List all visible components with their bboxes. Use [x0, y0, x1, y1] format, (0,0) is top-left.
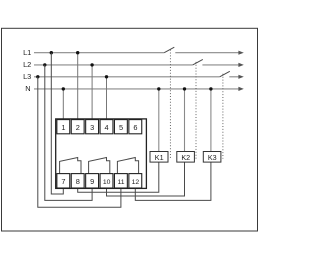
junction on L3 at riser to bottom run	[36, 75, 39, 78]
mechanical link K1 (dotted)	[169, 50, 171, 159]
junction on L1 at terminal 2 riser	[76, 51, 79, 54]
terminal 5	[114, 120, 127, 134]
relay contact 2 (terminals 9-10)	[89, 158, 110, 174]
wire L2 bus	[34, 64, 239, 66]
wire L1 to terminal 2	[77, 53, 79, 120]
junction on N at terminal 1 riser	[62, 87, 65, 90]
junction on N at K1 feed	[157, 87, 160, 90]
arrow L3	[238, 75, 243, 79]
svg-text:2: 2	[76, 123, 80, 132]
svg-text:N: N	[25, 84, 30, 93]
wire L3 to terminal 11 (bottom run)	[38, 77, 121, 207]
wire terminal 10 to K2 coil (bottom run)	[107, 162, 185, 196]
wire L3 to terminal 4	[106, 77, 108, 120]
contactor coil K2	[177, 152, 195, 163]
svg-text:6: 6	[133, 123, 137, 132]
terminal 4	[100, 120, 113, 134]
relay contact 1 (terminals 7-8)	[60, 158, 81, 174]
wire terminal 12 to K3 coil (bottom run)	[135, 162, 211, 200]
switch contact K2 on L2	[193, 59, 203, 65]
junction on L3 at terminal 4 riser	[105, 75, 108, 78]
arrow N	[238, 87, 243, 91]
terminal 6	[129, 120, 142, 134]
terminal 8	[71, 174, 84, 188]
terminal 2	[71, 120, 84, 134]
junction on N at K3 feed	[209, 87, 212, 90]
svg-text:K1: K1	[155, 153, 164, 162]
svg-text:8: 8	[76, 177, 80, 186]
terminal 3	[86, 120, 99, 134]
svg-text:3: 3	[90, 123, 94, 132]
svg-text:7: 7	[61, 177, 65, 186]
relay device box	[56, 119, 147, 188]
svg-text:5: 5	[119, 123, 123, 132]
switch contact K3 on L3	[220, 71, 230, 77]
contactor coil K3	[203, 152, 221, 163]
terminal 9	[86, 174, 99, 188]
wire L2 to terminal 3	[91, 65, 93, 120]
wire terminal 8 to K1 coil (bottom run)	[78, 162, 159, 192]
terminal 10	[100, 174, 113, 188]
svg-text:9: 9	[90, 177, 94, 186]
wire L1 to terminal 7 (bottom run)	[51, 53, 63, 194]
junction on L1 at riser to bottom run	[50, 51, 53, 54]
wire L1 bus	[34, 52, 239, 54]
arrow L1	[238, 51, 243, 55]
svg-text:L2: L2	[23, 60, 31, 69]
relay contact 3 (terminals 11-12)	[117, 158, 138, 174]
svg-text:10: 10	[103, 179, 111, 186]
arrow L2	[238, 63, 243, 67]
switch contact K1 on L1	[164, 47, 174, 53]
svg-text:4: 4	[105, 123, 109, 132]
svg-text:11: 11	[117, 179, 124, 186]
mechanical link K2 (dotted)	[195, 62, 197, 159]
contactor coil K1	[150, 152, 168, 163]
terminal 7	[57, 174, 70, 188]
svg-text:K2: K2	[181, 153, 190, 162]
wire N to K2 coil	[184, 89, 186, 152]
junction on L2 at terminal 3 riser	[90, 63, 93, 66]
svg-text:1: 1	[61, 123, 65, 132]
wire L2 to terminal 9 (bottom run)	[45, 65, 92, 201]
mechanical link K3 (dotted)	[222, 74, 224, 159]
wire N to K1 coil	[158, 89, 160, 152]
svg-text:K3: K3	[208, 153, 217, 162]
svg-text:L1: L1	[23, 48, 31, 57]
junction on L2 at riser to bottom run	[43, 63, 46, 66]
junction on N at K2 feed	[183, 87, 186, 90]
terminal 1	[57, 120, 70, 134]
wire N to K3 coil	[210, 89, 212, 152]
wire L3 bus	[34, 76, 239, 78]
terminal 11	[114, 174, 127, 188]
svg-text:12: 12	[132, 179, 140, 186]
svg-text:L3: L3	[23, 72, 31, 81]
wire N to terminal 1	[62, 89, 64, 120]
wire N bus	[34, 88, 239, 90]
terminal 12	[129, 174, 142, 188]
